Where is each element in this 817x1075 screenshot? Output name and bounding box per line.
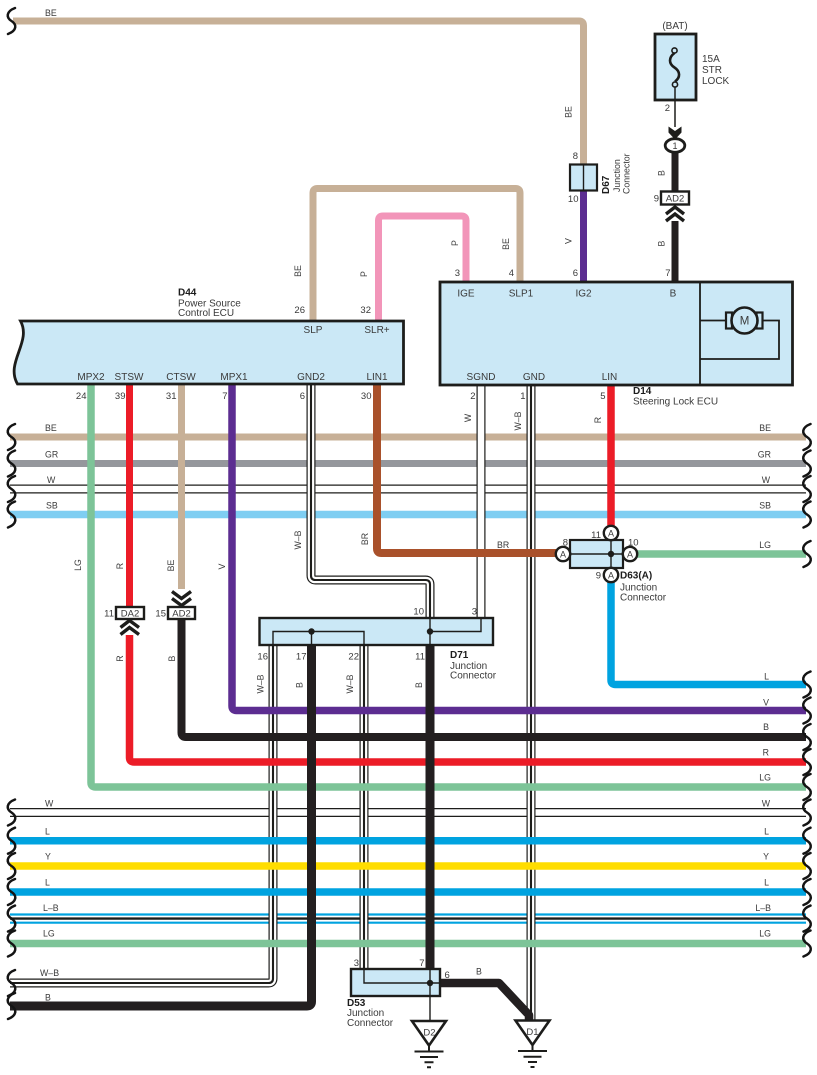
svg-text:2: 2 bbox=[665, 103, 670, 114]
svg-text:LG: LG bbox=[759, 540, 771, 550]
svg-text:D44: D44 bbox=[178, 288, 197, 299]
svg-text:Connector: Connector bbox=[620, 593, 667, 604]
svg-text:B: B bbox=[670, 289, 677, 300]
svg-text:LIN1: LIN1 bbox=[366, 372, 388, 383]
svg-text:D2: D2 bbox=[423, 1028, 435, 1039]
svg-text:SLR+: SLR+ bbox=[364, 325, 389, 336]
svg-text:IGE: IGE bbox=[457, 289, 475, 300]
svg-text:3: 3 bbox=[354, 958, 359, 969]
svg-text:DA2: DA2 bbox=[121, 609, 139, 620]
svg-text:BR: BR bbox=[497, 540, 509, 550]
svg-text:L: L bbox=[764, 672, 769, 682]
svg-text:W: W bbox=[762, 475, 771, 485]
svg-text:STSW: STSW bbox=[115, 372, 144, 383]
svg-text:39: 39 bbox=[115, 391, 126, 402]
svg-text:SB: SB bbox=[46, 501, 58, 511]
svg-text:Junction: Junction bbox=[612, 159, 622, 192]
svg-text:A: A bbox=[560, 550, 566, 560]
svg-text:B: B bbox=[763, 722, 769, 732]
svg-text:LG: LG bbox=[759, 929, 771, 939]
svg-text:L–B: L–B bbox=[43, 903, 59, 913]
svg-text:W–B: W–B bbox=[40, 968, 59, 978]
svg-text:W–B: W–B bbox=[513, 411, 523, 430]
svg-text:A: A bbox=[627, 550, 633, 560]
svg-text:17: 17 bbox=[296, 652, 307, 663]
svg-text:3: 3 bbox=[455, 268, 460, 279]
svg-text:P: P bbox=[359, 271, 369, 277]
svg-text:8: 8 bbox=[563, 538, 568, 549]
svg-text:R: R bbox=[115, 655, 125, 661]
svg-text:SLP: SLP bbox=[304, 325, 323, 336]
svg-text:L: L bbox=[764, 878, 769, 888]
svg-text:MPX1: MPX1 bbox=[220, 372, 248, 383]
svg-text:W–B: W–B bbox=[256, 674, 266, 693]
svg-text:B: B bbox=[476, 967, 482, 977]
svg-text:LG: LG bbox=[43, 929, 55, 939]
svg-text:LIN: LIN bbox=[602, 372, 618, 383]
svg-text:7: 7 bbox=[665, 268, 670, 279]
svg-text:AD2: AD2 bbox=[666, 194, 684, 205]
svg-text:M: M bbox=[740, 316, 750, 328]
svg-text:GR: GR bbox=[45, 450, 58, 460]
svg-text:MPX2: MPX2 bbox=[77, 372, 105, 383]
svg-text:A: A bbox=[608, 571, 614, 581]
svg-text:5: 5 bbox=[600, 391, 605, 402]
svg-text:(BAT): (BAT) bbox=[662, 21, 687, 32]
svg-text:4: 4 bbox=[509, 268, 514, 279]
svg-text:BE: BE bbox=[759, 423, 771, 433]
svg-text:L: L bbox=[45, 878, 50, 888]
svg-text:GND: GND bbox=[523, 372, 545, 383]
svg-text:R: R bbox=[115, 563, 125, 569]
svg-text:32: 32 bbox=[360, 305, 371, 316]
svg-text:CTSW: CTSW bbox=[166, 372, 196, 383]
svg-text:BE: BE bbox=[45, 8, 57, 18]
svg-text:9: 9 bbox=[596, 571, 601, 582]
svg-text:8: 8 bbox=[573, 151, 578, 162]
svg-text:11: 11 bbox=[104, 609, 114, 620]
svg-text:D71: D71 bbox=[450, 650, 469, 661]
svg-text:P: P bbox=[450, 240, 460, 246]
svg-text:BE: BE bbox=[293, 265, 303, 277]
svg-text:A: A bbox=[608, 529, 614, 539]
svg-text:V: V bbox=[217, 563, 227, 569]
svg-text:B: B bbox=[167, 655, 177, 661]
svg-text:SLP1: SLP1 bbox=[509, 289, 534, 300]
svg-text:15A: 15A bbox=[702, 54, 720, 65]
svg-text:16: 16 bbox=[257, 652, 268, 663]
svg-text:6: 6 bbox=[300, 391, 305, 402]
svg-text:L–B: L–B bbox=[755, 903, 771, 913]
svg-text:1: 1 bbox=[520, 391, 525, 402]
svg-text:Connector: Connector bbox=[450, 671, 497, 682]
svg-text:R: R bbox=[763, 748, 769, 758]
svg-text:B: B bbox=[657, 170, 667, 176]
svg-text:Connector: Connector bbox=[622, 153, 632, 194]
svg-text:6: 6 bbox=[445, 970, 450, 981]
svg-text:SGND: SGND bbox=[467, 372, 496, 383]
svg-text:10: 10 bbox=[568, 194, 579, 205]
svg-text:24: 24 bbox=[76, 391, 87, 402]
svg-text:V: V bbox=[564, 238, 574, 244]
svg-text:W: W bbox=[45, 799, 54, 809]
svg-text:W: W bbox=[47, 475, 56, 485]
svg-text:B: B bbox=[295, 682, 305, 688]
svg-text:LOCK: LOCK bbox=[702, 76, 730, 87]
svg-text:AD2: AD2 bbox=[172, 609, 190, 620]
svg-text:D1: D1 bbox=[526, 1027, 538, 1038]
svg-text:11: 11 bbox=[591, 530, 601, 541]
svg-text:W: W bbox=[463, 413, 473, 422]
svg-text:D67: D67 bbox=[601, 175, 612, 194]
svg-text:7: 7 bbox=[222, 391, 227, 402]
svg-text:IG2: IG2 bbox=[575, 289, 592, 300]
svg-text:GND2: GND2 bbox=[297, 372, 325, 383]
svg-text:11: 11 bbox=[415, 652, 425, 663]
svg-text:3: 3 bbox=[472, 607, 477, 618]
svg-text:2: 2 bbox=[470, 391, 475, 402]
svg-text:R: R bbox=[593, 417, 603, 423]
svg-text:B: B bbox=[45, 993, 51, 1003]
svg-text:7: 7 bbox=[419, 958, 424, 969]
svg-text:BE: BE bbox=[166, 560, 176, 572]
svg-text:SB: SB bbox=[759, 501, 771, 511]
svg-text:STR: STR bbox=[702, 65, 722, 76]
svg-text:W–B: W–B bbox=[345, 674, 355, 693]
svg-text:GR: GR bbox=[758, 450, 771, 460]
svg-text:Y: Y bbox=[763, 852, 769, 862]
svg-text:9: 9 bbox=[654, 194, 659, 205]
svg-text:L: L bbox=[764, 827, 769, 837]
svg-text:W–B: W–B bbox=[293, 530, 303, 549]
svg-text:D14: D14 bbox=[633, 386, 652, 397]
svg-text:10: 10 bbox=[628, 538, 639, 549]
svg-text:26: 26 bbox=[294, 305, 305, 316]
svg-text:Control ECU: Control ECU bbox=[178, 308, 234, 319]
svg-text:V: V bbox=[763, 698, 769, 708]
svg-text:10: 10 bbox=[413, 607, 424, 618]
svg-text:W: W bbox=[762, 799, 771, 809]
svg-text:15: 15 bbox=[155, 609, 166, 620]
svg-text:D63(A): D63(A) bbox=[620, 571, 652, 582]
svg-text:LG: LG bbox=[759, 773, 771, 783]
svg-text:BE: BE bbox=[45, 423, 57, 433]
svg-text:B: B bbox=[657, 240, 667, 246]
svg-text:BE: BE bbox=[564, 106, 574, 118]
svg-text:BE: BE bbox=[501, 238, 511, 250]
svg-text:1: 1 bbox=[672, 141, 677, 151]
svg-text:30: 30 bbox=[361, 391, 372, 402]
svg-text:LG: LG bbox=[73, 559, 83, 571]
svg-text:6: 6 bbox=[573, 268, 578, 279]
svg-text:BR: BR bbox=[360, 533, 370, 545]
svg-text:Connector: Connector bbox=[347, 1018, 394, 1029]
svg-text:31: 31 bbox=[166, 391, 177, 402]
svg-text:L: L bbox=[45, 827, 50, 837]
svg-text:B: B bbox=[414, 682, 424, 688]
svg-text:Steering Lock ECU: Steering Lock ECU bbox=[633, 397, 718, 408]
svg-text:22: 22 bbox=[348, 652, 359, 663]
svg-text:Y: Y bbox=[45, 852, 51, 862]
